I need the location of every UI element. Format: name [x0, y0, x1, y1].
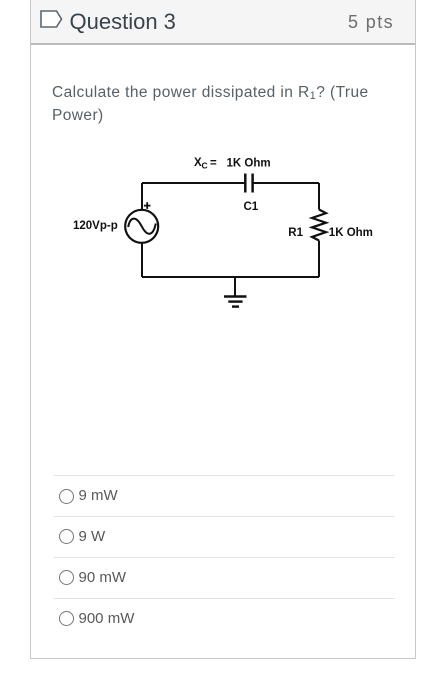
ground bar 1	[224, 295, 247, 297]
wire bottom	[142, 276, 319, 278]
ground bar 3	[232, 305, 239, 307]
AC source sine wave	[128, 219, 156, 234]
wire top: source to capacitor left plate	[142, 182, 245, 184]
capacitor C1 plates	[245, 174, 252, 193]
resistor R1 zigzag	[312, 210, 326, 241]
ground bar 2	[228, 300, 242, 302]
wire left: top corner down to source	[141, 183, 143, 210]
wire right: resistor down to bottom corner	[318, 241, 320, 278]
AC source V1 circle	[125, 210, 158, 243]
wire right: top corner down to resistor	[318, 183, 320, 210]
wire left: source down to bottom corner	[141, 243, 143, 277]
plus sign of source	[144, 202, 151, 209]
ground stem	[234, 277, 236, 296]
wire top: capacitor right plate to right corner	[253, 182, 319, 184]
